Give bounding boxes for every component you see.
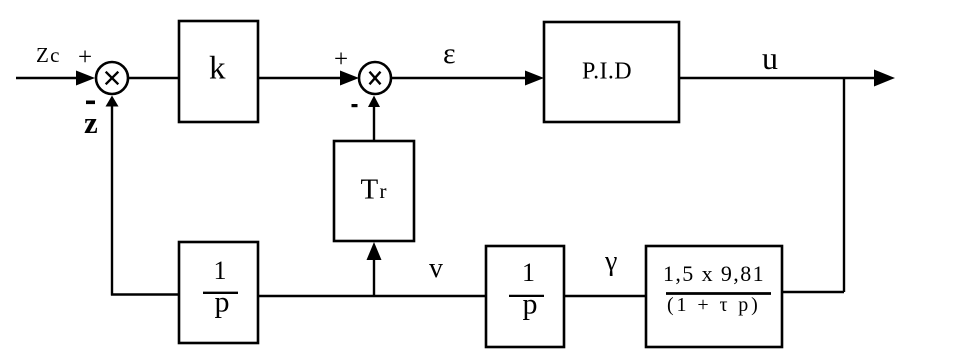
block integrator 2 (1/p) [486,246,564,347]
svg-text:k: k [209,51,226,87]
svg-text:+: + [78,44,92,71]
svg-text:P.I.D: P.I.D [582,59,632,85]
svg-text:ε: ε [443,37,456,70]
svg-text:p: p [215,286,230,319]
svg-text:1,5 x 9,81: 1,5 x 9,81 [663,261,765,286]
block plant 1,5 x 9,81 / (1 + tau p) [646,246,782,347]
svg-text:γ: γ [604,246,617,277]
wire input Zc [16,77,79,79]
block integrator 1 (1/p) [179,242,258,343]
wire feedback up to S1 [111,106,113,296]
block k [179,21,258,122]
wire k to S2 [258,77,342,79]
wire Tr to S2 [373,107,375,141]
minus sign at S1 [86,101,95,105]
svg-text:T: T [361,174,379,206]
minus sign at S2 [352,104,358,107]
svg-text:u: u [762,40,778,76]
svg-text:1: 1 [214,256,227,285]
block Tr [334,141,414,241]
svg-text:Zc: Zc [36,43,61,67]
wire PID output u [679,77,877,79]
svg-text:1: 1 [522,258,535,287]
wire S2 to PID [391,77,529,79]
svg-text:r: r [380,179,387,203]
wire into plant block [781,291,844,293]
svg-text:z: z [84,105,98,140]
wire integrator1 to feedback corner [111,293,179,295]
wire feedback branch down from u [843,78,845,292]
wire S1 to k [128,77,180,79]
wire integrator2 to integrator1 [258,295,486,297]
svg-text:+: + [334,46,348,73]
svg-text:p: p [523,288,538,321]
wire plant to integrator 2 [564,295,646,297]
summing junction S1 [96,62,128,94]
block P.I.D [544,22,679,122]
svg-text:(1 + τ p): (1 + τ p) [667,294,761,316]
svg-text:v: v [429,253,443,284]
wire branch v up to Tr [373,259,375,296]
summing junction S2 [359,62,391,94]
